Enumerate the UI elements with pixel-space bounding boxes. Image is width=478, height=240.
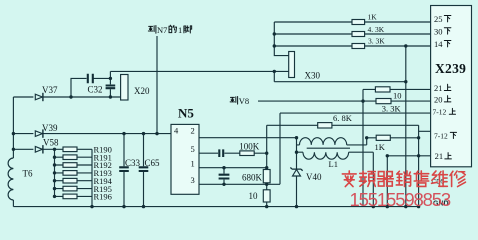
- svg-text:1: 1: [178, 25, 182, 35]
- svg-text:3: 3: [191, 175, 195, 185]
- svg-text:1K: 1K: [375, 142, 386, 152]
- svg-text:L1: L1: [329, 159, 338, 169]
- svg-text:21: 21: [435, 151, 444, 161]
- svg-text:100K: 100K: [239, 141, 259, 151]
- svg-text:2: 2: [191, 126, 195, 136]
- svg-text:1K: 1K: [368, 13, 378, 22]
- svg-text:V40: V40: [306, 172, 322, 182]
- svg-text:X239: X239: [435, 61, 466, 76]
- svg-text:20: 20: [434, 94, 443, 104]
- svg-text:680K: 680K: [242, 173, 263, 183]
- svg-text:15515598853: 15515598853: [350, 189, 451, 210]
- svg-text:25: 25: [434, 14, 443, 24]
- svg-text:7-12: 7-12: [434, 131, 448, 140]
- svg-text:V58: V58: [43, 138, 59, 148]
- svg-text:4. 3K: 4. 3K: [368, 25, 385, 34]
- svg-text:R196: R196: [94, 192, 112, 202]
- svg-text:3. 3K: 3. 3K: [382, 104, 402, 114]
- svg-text:10: 10: [393, 91, 402, 101]
- svg-text:10: 10: [249, 191, 259, 201]
- svg-text:6. 8K: 6. 8K: [333, 113, 353, 123]
- svg-text:X30: X30: [305, 71, 321, 81]
- svg-text:V37: V37: [42, 85, 58, 95]
- svg-text:C65: C65: [145, 158, 161, 168]
- svg-text:C33: C33: [125, 158, 141, 168]
- svg-text:T6: T6: [23, 169, 33, 179]
- svg-text:X20: X20: [134, 86, 150, 96]
- svg-text:30: 30: [434, 26, 443, 36]
- svg-text:5: 5: [191, 144, 195, 154]
- svg-text:21: 21: [434, 83, 443, 93]
- svg-text:7-12: 7-12: [433, 108, 447, 117]
- svg-text:1: 1: [191, 159, 195, 169]
- svg-text:N7: N7: [157, 25, 167, 35]
- svg-text:C32: C32: [88, 85, 103, 95]
- svg-text:V39: V39: [42, 123, 58, 133]
- svg-text:N5: N5: [178, 106, 194, 121]
- svg-text:14: 14: [434, 39, 443, 49]
- svg-text:V8: V8: [239, 96, 249, 106]
- svg-text:3. 3K: 3. 3K: [368, 37, 385, 46]
